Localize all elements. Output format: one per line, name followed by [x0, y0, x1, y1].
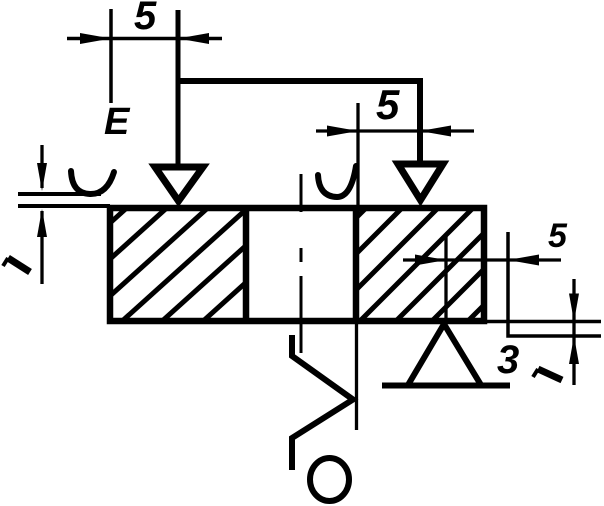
svg-text:5: 5 [134, 0, 157, 38]
svg-text:5: 5 [376, 81, 400, 128]
svg-text:E: E [104, 101, 131, 143]
svg-text:5: 5 [548, 217, 568, 255]
svg-text:3: 3 [497, 338, 519, 382]
